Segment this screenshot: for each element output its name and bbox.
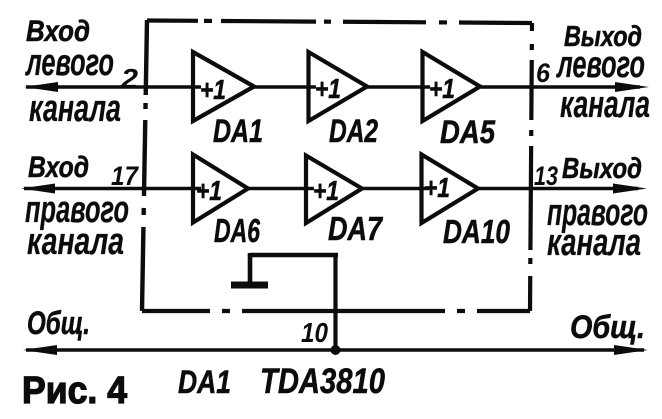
wire: common (ground) bus line	[26, 348, 644, 352]
IC boundary box left edge (dash-dot)	[142, 20, 147, 311]
arrowhead: common bus left	[23, 345, 57, 355]
svg-text:Выход: Выход	[562, 153, 642, 185]
svg-text:канала: канала	[27, 221, 124, 263]
svg-text:DA10: DA10	[443, 213, 511, 250]
svg-text:Рис. 4: Рис. 4	[22, 370, 127, 412]
wire: right channel input line (pin 17)	[24, 187, 201, 191]
arrowhead: right output (pin 13) pointing right	[613, 184, 647, 194]
svg-text:2: 2	[120, 63, 139, 94]
arrowhead: left output (pin 6) pointing right	[615, 82, 649, 92]
wire: left channel input line (pin 2)	[26, 85, 201, 89]
svg-text:DA1: DA1	[213, 113, 263, 149]
op-amp buffer DA2 triangle	[309, 52, 368, 121]
svg-text:+1: +1	[196, 175, 222, 206]
svg-text:канала: канала	[547, 222, 641, 264]
wire: DA1 to DA2	[252, 85, 316, 89]
IC boundary box right edge (dash-dot)	[530, 23, 532, 311]
svg-text:Общ.: Общ.	[27, 305, 90, 341]
svg-text:+1: +1	[200, 74, 226, 105]
wire: pin 10 vertical to ground bus	[333, 254, 337, 351]
svg-text:+1: +1	[315, 73, 341, 104]
wire: DA2 to DA5	[364, 85, 430, 89]
op-amp buffer DA1 triangle	[193, 52, 254, 121]
svg-text:DA7: DA7	[328, 210, 383, 247]
svg-text:+1: +1	[424, 172, 450, 203]
IC boundary box top edge (dash-dot)	[147, 21, 532, 24]
svg-text:13: 13	[534, 161, 558, 191]
wire: internal ground loop vertical drop	[248, 253, 253, 283]
svg-text:DA1: DA1	[178, 364, 231, 400]
svg-text:канала: канала	[560, 84, 650, 126]
svg-text:DA6: DA6	[214, 212, 260, 249]
arrowhead: common bus right	[614, 345, 648, 355]
IC boundary box bottom edge (dash-dot)	[142, 309, 530, 313]
svg-text:канала: канала	[29, 88, 121, 130]
svg-text:DA5: DA5	[440, 114, 496, 150]
svg-text:10: 10	[301, 317, 328, 348]
wire: DA7 to DA10	[360, 187, 429, 191]
wire: right channel output line (pin 13)	[478, 187, 638, 191]
svg-text:Общ.: Общ.	[570, 309, 645, 345]
svg-text:+1: +1	[429, 73, 455, 104]
op-amp buffer DA5 triangle	[423, 52, 481, 121]
wire: internal ground loop horizontal	[250, 253, 338, 258]
op-amp buffer DA7 triangle	[306, 156, 362, 224]
svg-text:Вход: Вход	[28, 151, 89, 184]
arrowhead: left input (pin 2) pointing left	[24, 82, 58, 92]
op-amp buffer DA10 triangle	[422, 155, 479, 224]
svg-text:17: 17	[111, 161, 140, 191]
op-amp buffer DA6 triangle	[193, 155, 248, 223]
svg-text:6: 6	[536, 58, 551, 88]
wire: DA6 to DA7	[246, 187, 314, 191]
svg-text:DA2: DA2	[329, 113, 378, 149]
arrowhead: right input (pin 17) pointing left	[21, 184, 55, 194]
svg-text:TDA3810: TDA3810	[260, 362, 385, 401]
ground bar symbol	[231, 282, 268, 289]
svg-text:+1: +1	[313, 175, 339, 206]
svg-text:левого: левого	[556, 44, 645, 86]
wire: left channel output line (pin 6)	[480, 85, 640, 89]
junction node pin 10 on common bus	[331, 345, 341, 355]
svg-text:левого: левого	[25, 42, 114, 84]
